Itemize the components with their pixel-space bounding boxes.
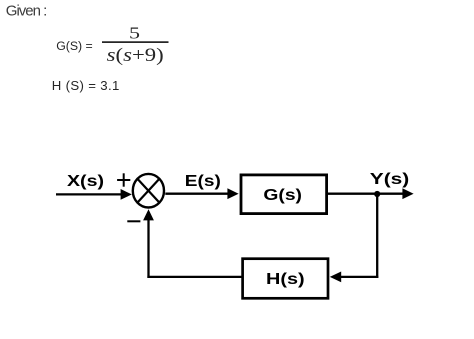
wire from node down bbox=[376, 194, 378, 278]
wire output Y(s) with arrow bbox=[328, 188, 414, 199]
svg-text:G(S) =: G(S) = bbox=[56, 39, 93, 53]
svg-text:s(s+9): s(s+9) bbox=[107, 46, 164, 66]
plus sign bbox=[117, 173, 130, 186]
wire E(s) from summing junction to block G bbox=[165, 188, 238, 199]
svg-text:Given :: Given : bbox=[6, 3, 48, 20]
wire from block H left to feedback corner bbox=[147, 276, 242, 278]
svg-text:G(s): G(s) bbox=[263, 187, 302, 204]
wire feedback up into summing junction bbox=[143, 209, 154, 278]
svg-text:Y(s): Y(s) bbox=[370, 171, 410, 188]
svg-text:H(s): H(s) bbox=[266, 271, 305, 288]
svg-text:5: 5 bbox=[129, 23, 140, 42]
fraction bar bbox=[102, 41, 169, 43]
svg-text:H (S) = 3.1: H (S) = 3.1 bbox=[52, 78, 120, 93]
wire into block H with left arrow bbox=[330, 272, 379, 283]
summing junction bbox=[133, 174, 164, 208]
svg-text:X(s): X(s) bbox=[67, 173, 104, 190]
svg-text:E(s): E(s) bbox=[185, 173, 221, 190]
wire input arrow into summing junction bbox=[56, 189, 132, 200]
block G(s) bbox=[241, 175, 327, 214]
minus sign bbox=[127, 220, 140, 222]
node takeoff point bbox=[374, 191, 380, 197]
block H(s) bbox=[243, 259, 328, 299]
